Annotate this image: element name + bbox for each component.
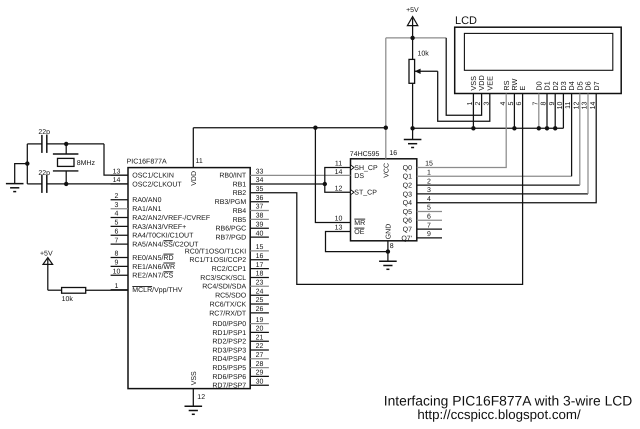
svg-text:36: 36 (256, 195, 264, 202)
svg-text:9: 9 (115, 260, 119, 267)
svg-text:12: 12 (335, 185, 343, 192)
resistor R1 10k (MCLR pull-up) (62, 288, 86, 304)
wire clock tee to SH_CP (pin 11) (325, 168, 351, 185)
svg-text:16: 16 (389, 150, 397, 157)
svg-text:Q6: Q6 (403, 218, 412, 225)
svg-text:33: 33 (256, 168, 264, 175)
wire +5V horizontal rail (top) (386, 37, 446, 39)
svg-text:Q3: Q3 (403, 191, 412, 198)
svg-text:30: 30 (256, 378, 264, 385)
potentiometer RV1 10k (LCD contrast) (409, 38, 438, 128)
wire LCD VSS pin 1 to ground rail (472, 94, 474, 129)
svg-text:9: 9 (427, 231, 431, 238)
svg-text:MCLR/Vpp/THV: MCLR/Vpp/THV (132, 286, 183, 294)
wire clock tee to ST_CP (pin 12) (325, 184, 351, 192)
svg-text:RB5: RB5 (233, 217, 247, 224)
svg-text:Interfacing PIC16F877A with 3-: Interfacing PIC16F877A with 3-wire LCD (384, 392, 633, 408)
wire U2 OE (pin 13) to ground node (326, 232, 388, 252)
svg-text:40: 40 (256, 230, 264, 237)
svg-text:VDD: VDD (191, 171, 198, 186)
junction RB1 clock tee (323, 182, 327, 186)
svg-text:RA4/T0CKI/C1OUT: RA4/T0CKI/C1OUT (132, 232, 194, 240)
svg-text:OSC1/CLKIN: OSC1/CLKIN (132, 172, 174, 180)
svg-text:RB2: RB2 (233, 190, 247, 197)
svg-text:14: 14 (113, 177, 121, 184)
svg-text:Q5: Q5 (403, 209, 412, 216)
junction ground rail at potentiometer bottom (410, 126, 414, 130)
+5V supply symbol (top) (406, 7, 419, 38)
svg-text:RD3/PSP3: RD3/PSP3 (212, 346, 246, 354)
wire to oscillator ground (15, 164, 28, 184)
svg-text:4: 4 (427, 196, 431, 203)
svg-text:+5V: +5V (40, 250, 53, 257)
svg-text:2: 2 (427, 178, 431, 185)
svg-text:OSC2/CLKOUT: OSC2/CLKOUT (132, 180, 182, 188)
svg-text:2: 2 (115, 193, 119, 200)
svg-text:VEE: VEE (485, 76, 494, 91)
svg-text:RC3/SCK/SCL: RC3/SCK/SCL (200, 274, 246, 282)
U1 left pin stubs, numbers and labels (pins 13,14,2-10,1) (111, 168, 210, 294)
svg-text:38: 38 (256, 213, 264, 220)
svg-text:16: 16 (256, 253, 264, 260)
capacitor C1 22p (top) (38, 129, 50, 153)
svg-text:GND: GND (385, 224, 392, 240)
svg-text:RE2/AN7/CS: RE2/AN7/CS (132, 272, 173, 280)
svg-text:RC0/T1OSO/T1CKI: RC0/T1OSO/T1CKI (185, 247, 247, 255)
svg-text:E: E (518, 86, 527, 91)
svg-text:RD5/PSP5: RD5/PSP5 (212, 364, 246, 372)
svg-text:12: 12 (197, 394, 205, 401)
crystal X1 8MHz (53, 144, 96, 184)
svg-text:ST_CP: ST_CP (354, 190, 377, 197)
junction +5V tee at potentiometer (410, 36, 414, 40)
wire VDD rail to U2 MR (pin 10) (315, 128, 350, 223)
svg-text:+5V: +5V (406, 7, 419, 14)
svg-text:5: 5 (427, 205, 431, 212)
svg-text:RB6/PGC: RB6/PGC (215, 225, 246, 233)
svg-text:RA1/AN1: RA1/AN1 (132, 205, 161, 213)
svg-text:RC2/CCP1: RC2/CCP1 (212, 265, 247, 273)
junction D2 at ground rail (553, 126, 557, 130)
svg-text:25: 25 (256, 297, 264, 304)
svg-text:11: 11 (196, 158, 203, 165)
svg-text:8: 8 (115, 251, 119, 258)
svg-text:RC5/SDO: RC5/SDO (215, 292, 247, 300)
svg-text:RD4/PSP4: RD4/PSP4 (212, 355, 246, 363)
U2 right pin stubs, numbers and labels Q0-Q7, Q7' (401, 161, 442, 243)
wire U2 Q1 (pin 1) to LCD D4 pin 11 (417, 94, 572, 177)
junction RW at ground rail (512, 126, 516, 130)
svg-text:17: 17 (256, 262, 264, 269)
svg-text:D7: D7 (592, 81, 601, 90)
svg-text:RD1/PSP1: RD1/PSP1 (212, 329, 246, 337)
svg-text:7: 7 (427, 222, 431, 229)
junction VSS at ground rail (471, 126, 475, 130)
svg-text:13: 13 (335, 225, 343, 232)
svg-text:RD6/PSP6: RD6/PSP6 (212, 373, 246, 381)
svg-text:RB3/PGM: RB3/PGM (215, 198, 247, 206)
wire U2 Q0 (pin 15) to LCD RS pin 4 (417, 94, 506, 168)
svg-text:3: 3 (115, 202, 119, 209)
wire PIC RB1 (pin 34) to U2 clock pins (250, 183, 325, 185)
svg-text:RB1: RB1 (233, 181, 247, 188)
wire left vertical joining both caps (27, 144, 42, 184)
svg-text:8: 8 (390, 243, 394, 250)
svg-text:RC1/T1OSI/CCP2: RC1/T1OSI/CCP2 (189, 256, 246, 264)
svg-text:Q1: Q1 (403, 174, 412, 181)
svg-text:37: 37 (256, 204, 264, 211)
svg-text:VSS: VSS (191, 371, 198, 385)
caption text (384, 392, 633, 422)
IC U2 74HC595 (body, VCC pin 16, GND pin 8) (350, 38, 417, 261)
svg-text:10k: 10k (62, 295, 74, 303)
wire OSC2 net: C2 to crystal bottom to PIC pin 14 (47, 183, 128, 185)
svg-text:LCD: LCD (455, 15, 477, 27)
svg-text:34: 34 (256, 177, 264, 184)
svg-text:35: 35 (256, 186, 264, 193)
junction crystal top node (64, 142, 68, 146)
svg-text:RE1/AN6/WR: RE1/AN6/WR (132, 263, 175, 271)
svg-text:24: 24 (256, 288, 264, 295)
svg-text:29: 29 (256, 370, 264, 377)
U2 left pin labels SH_CP, DS, ST_CP, MR, OE with clock marks (335, 161, 378, 236)
svg-text:RA0/AN0: RA0/AN0 (132, 196, 161, 204)
wire U2 Q4 (pin 4) to LCD D7 pin 14 (417, 94, 596, 203)
svg-text:18: 18 (256, 271, 264, 278)
capacitor C2 22p (bottom) (38, 170, 50, 193)
wire VDD rail: PIC pin 11 to 74HC595 VCC riser (193, 127, 385, 129)
wire LCD RW pin 5 to ground rail (513, 94, 515, 129)
svg-text:RC6/TX/CK: RC6/TX/CK (210, 300, 247, 308)
svg-text:27: 27 (256, 352, 264, 359)
ground (74HC595 GND pin 8) (379, 261, 397, 269)
svg-text:RA2/AN2/VREF-/CVREF: RA2/AN2/VREF-/CVREF (132, 214, 210, 222)
svg-text:22: 22 (256, 343, 264, 350)
wire LCD D2 pin 9 to ground rail (554, 94, 556, 129)
junction VDD rail end at VCC riser (384, 126, 388, 130)
svg-text:RD0/PSP0: RD0/PSP0 (212, 320, 246, 328)
svg-text:4: 4 (115, 211, 119, 218)
svg-text:6: 6 (427, 214, 431, 221)
wire +5V to LCD VDD pin 2 (446, 38, 481, 115)
svg-text:6: 6 (115, 228, 119, 235)
junction D0 at ground rail (537, 126, 541, 130)
junction D1 at ground rail (545, 126, 549, 130)
wire LCD D1 pin 8 to ground rail (546, 94, 548, 129)
U1 right pin stubs, numbers and labels (RB/RC/RD ports) (185, 168, 269, 389)
svg-text:23: 23 (256, 280, 264, 287)
ground (rail, below potentiometer) (404, 128, 422, 147)
svg-text:RE0/AN5/RD: RE0/AN5/RD (132, 254, 173, 262)
svg-text:SH_CP: SH_CP (354, 165, 378, 172)
svg-text:19: 19 (256, 317, 264, 324)
svg-text:http://ccspicc.blogspot.com/: http://ccspicc.blogspot.com/ (417, 407, 581, 422)
svg-text:VCC: VCC (383, 163, 390, 178)
svg-text:10: 10 (335, 216, 343, 223)
wire PIC RB2 (pin 35) to LCD E pin 6 (250, 94, 522, 285)
svg-text:11: 11 (335, 161, 342, 168)
svg-text:1: 1 (115, 283, 119, 290)
svg-text:7: 7 (115, 237, 119, 244)
wire ground rail (under LCD) (413, 127, 564, 129)
IC U1 PIC16F877A (body, VDD pin 11, VSS pin 12) (127, 128, 251, 407)
svg-text:OE: OE (354, 229, 364, 236)
svg-text:26: 26 (256, 306, 264, 313)
svg-text:DS: DS (354, 173, 364, 180)
svg-text:RA3/AN3/VREF+: RA3/AN3/VREF+ (132, 223, 186, 231)
svg-text:Q7': Q7' (401, 235, 412, 242)
svg-text:15: 15 (425, 161, 433, 168)
ground (PIC VSS pin 12) (185, 406, 203, 414)
LCD pin names VSS..D7 and pin numbers 1-14 (467, 75, 601, 109)
svg-text:PIC16F877A: PIC16F877A (127, 158, 167, 165)
junction OE at GND lead (386, 249, 390, 253)
wire U2 Q3 (pin 3) to LCD D6 pin 13 (417, 94, 588, 194)
svg-text:39: 39 (256, 221, 264, 228)
svg-text:Q2: Q2 (403, 183, 412, 190)
junction VDD rail / MR riser (313, 126, 317, 130)
ground (oscillator) (6, 184, 24, 192)
svg-text:RD7/PSP7: RD7/PSP7 (212, 382, 246, 390)
svg-text:22p: 22p (38, 129, 50, 136)
svg-text:22p: 22p (38, 170, 50, 177)
svg-text:13: 13 (113, 168, 121, 175)
svg-text:28: 28 (256, 361, 264, 368)
wire U2 Q2 (pin 2) to LCD D5 pin 12 (417, 94, 580, 186)
junction oscillator ground tap (25, 161, 29, 165)
svg-text:RB7/PGD: RB7/PGD (215, 234, 246, 242)
svg-text:5: 5 (115, 220, 119, 227)
wire wiper to LCD VEE pin 3 (438, 71, 490, 121)
svg-text:21: 21 (256, 334, 264, 341)
LCD module (outer body and display window) (455, 15, 622, 93)
svg-text:MR: MR (354, 220, 365, 227)
svg-text:RB0/INT: RB0/INT (219, 172, 247, 180)
svg-text:10: 10 (113, 268, 121, 275)
junction crystal bottom node (64, 182, 68, 186)
svg-text:RC4/SDI/SDA: RC4/SDI/SDA (202, 283, 246, 291)
wire resistor to PIC pin 1 MCLR (86, 289, 128, 291)
wire +5V to resistor (48, 289, 62, 291)
svg-text:8MHz: 8MHz (77, 160, 96, 167)
svg-text:RC7/RX/DT: RC7/RX/DT (209, 309, 247, 317)
svg-text:10k: 10k (418, 49, 430, 57)
wire PIC RB0 (pin 33) to U2 DS (pin 14) (250, 174, 350, 176)
svg-text:Q7: Q7 (403, 227, 412, 234)
svg-text:Q0: Q0 (403, 165, 412, 172)
svg-text:1: 1 (427, 170, 431, 177)
svg-text:74HC595: 74HC595 (350, 151, 380, 158)
svg-text:RB4: RB4 (233, 208, 247, 215)
svg-text:20: 20 (256, 326, 264, 333)
svg-text:RD2/PSP2: RD2/PSP2 (212, 338, 246, 346)
svg-text:RA5/AN4/SS/C2OUT: RA5/AN4/SS/C2OUT (132, 241, 199, 249)
wire LCD D0 pin 7 to ground rail (538, 94, 540, 129)
+5V supply symbol (MCLR) (40, 250, 53, 290)
wire LCD D3 pin 10 to ground rail end (562, 94, 564, 129)
svg-text:3: 3 (427, 187, 431, 194)
wire OSC1 net: C1 to crystal top to PIC pin 13 (47, 144, 128, 175)
svg-text:15: 15 (256, 244, 264, 251)
svg-text:Q4: Q4 (403, 200, 412, 207)
